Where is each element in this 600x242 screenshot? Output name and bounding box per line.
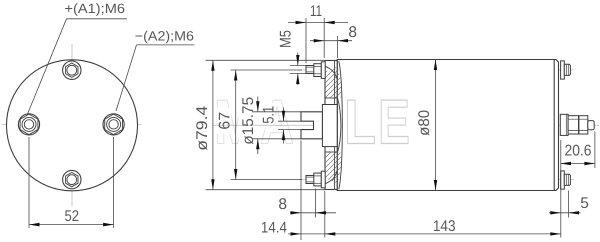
svg-text:67: 67 — [216, 112, 233, 130]
bell curve inside body — [339, 61, 343, 189]
label -(A2);M6 leader — [116, 45, 195, 111]
dim 11 — [288, 22, 348, 24]
svg-text:52: 52 — [65, 208, 80, 225]
svg-text:11: 11 — [310, 3, 322, 20]
svg-text:143: 143 — [433, 218, 456, 235]
80 arrows — [434, 60, 437, 71]
79.4 arrows — [211, 60, 214, 71]
top bolt — [63, 61, 81, 79]
dome arc — [337, 98, 341, 153]
dia 80 — [435, 60, 437, 191]
ring lines on plate — [325, 98, 337, 152]
svg-text:ø80: ø80 — [416, 110, 433, 136]
label +(A1);M6 leader — [28, 19, 128, 114]
dia 15.75 — [257, 97, 259, 112]
svg-text:E: E — [378, 88, 410, 158]
dim 20.6 — [561, 163, 595, 165]
bottom-right stud centerline — [552, 179, 574, 181]
left bolt (terminal A1) — [18, 114, 39, 135]
top-right stud — [561, 61, 571, 79]
watermark letters over body — [344, 88, 410, 158]
svg-text:M5: M5 — [277, 30, 294, 48]
M5 ext lines — [290, 65, 307, 67]
svg-text:ø15.75: ø15.75 — [240, 97, 257, 145]
bottom-left stud centerline — [298, 179, 342, 181]
top-left stud M5 — [306, 62, 325, 79]
side view main horizontal centerline — [213, 124, 599, 126]
right bolt (terminal A2) — [103, 114, 124, 135]
dim 67 — [235, 70, 237, 180]
svg-text:ø79.4: ø79.4 — [194, 105, 211, 150]
dim 5.1 — [283, 108, 285, 122]
end cap seam — [553, 60, 555, 191]
67 arrows — [234, 70, 237, 81]
dimension 52 — [29, 137, 114, 228]
left bolt vertical centerline — [28, 109, 30, 140]
svg-text:20.6: 20.6 — [565, 143, 592, 160]
right bolt vertical centerline — [113, 109, 115, 140]
dim 5 right — [549, 212, 581, 214]
housing outer circle — [7, 60, 138, 191]
centerlines — [2, 44, 599, 207]
svg-text:L: L — [344, 88, 376, 158]
flange plate — [325, 61, 337, 190]
svg-text:−(A2);M6: −(A2);M6 — [135, 28, 194, 43]
top bolt horizontal centerline — [58, 69, 86, 71]
svg-text:8: 8 — [348, 24, 357, 41]
M5 arrows — [296, 55, 299, 66]
plunger fork — [301, 112, 322, 139]
bottom-right stud — [561, 171, 571, 189]
svg-text:5.1: 5.1 — [260, 106, 277, 124]
right terminal — [560, 114, 594, 135]
circle view horizontal centerline — [2, 123, 142, 125]
cylinder body — [337, 60, 558, 191]
plate section hatching top — [320, 54, 344, 118]
5.1 arrows — [282, 111, 285, 122]
bottom bolt horizontal centerline — [58, 179, 86, 181]
svg-text:5: 5 — [580, 195, 589, 212]
bottom-left stud M5 — [306, 171, 325, 188]
5 right arrows — [550, 211, 561, 214]
dim 14.4 / 143 — [288, 233, 561, 235]
dim 8 top — [310, 40, 352, 42]
143 right arrow — [550, 232, 561, 235]
white masks behind vertical dimension texts — [194, 94, 431, 154]
15.75 arrows — [256, 101, 259, 112]
collar behind fork — [322, 105, 337, 147]
20.6 arrows — [561, 162, 572, 165]
8 bottom arrows — [291, 211, 302, 214]
dim 8 bottom — [290, 212, 336, 214]
14.4 arrows — [291, 232, 302, 235]
top-right stud centerline — [552, 69, 574, 71]
dia 79.4 — [212, 60, 214, 189]
arrows — [211, 21, 595, 236]
svg-text:8: 8 — [278, 196, 287, 213]
11 arrows — [296, 21, 307, 24]
bottom bolt — [63, 170, 81, 188]
svg-text:+(A1);M6: +(A1);M6 — [65, 1, 126, 16]
svg-text:14.4: 14.4 — [261, 219, 287, 236]
8 top arrows — [314, 39, 325, 42]
circle view vertical centerline — [71, 44, 73, 207]
top-left stud centerline — [298, 69, 342, 71]
stud boss curves on plate — [325, 66, 337, 183]
watermark MAHLE — [214, 88, 332, 158]
plate section hatching bottom — [320, 134, 344, 198]
